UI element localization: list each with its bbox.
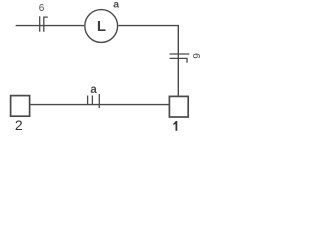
svg-text:9: 9 bbox=[192, 53, 202, 59]
svg-text:6: 6 bbox=[39, 3, 45, 14]
svg-text:a: a bbox=[90, 84, 97, 96]
svg-text:L: L bbox=[97, 18, 106, 35]
svg-text:2: 2 bbox=[15, 117, 23, 133]
svg-text:a: a bbox=[113, 0, 119, 10]
